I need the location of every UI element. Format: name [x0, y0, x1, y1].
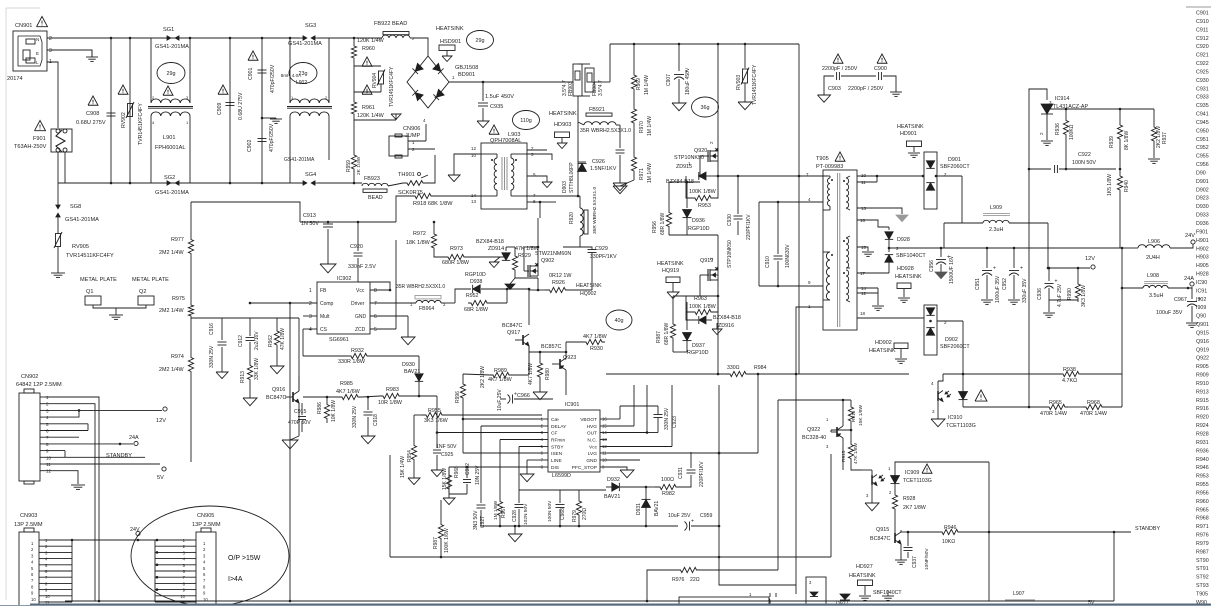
- svg-text:12: 12: [471, 146, 477, 151]
- svg-text:D932: D932: [607, 477, 620, 483]
- wire Vcc rail: [519, 489, 606, 491]
- right PFC rail down x799: [798, 44, 800, 374]
- svg-text:2.3uH: 2.3uH: [989, 227, 1003, 233]
- svg-text:BC328-40: BC328-40: [802, 435, 826, 441]
- svg-text:CF: CF: [551, 431, 557, 437]
- svg-text:100uF 35V: 100uF 35V: [1156, 310, 1183, 316]
- svg-text:TVR14511KFC4FY: TVR14511KFC4FY: [66, 253, 114, 259]
- svg-text:R932: R932: [351, 348, 364, 354]
- wire lower right web: [719, 557, 796, 585]
- svg-text:DELAY: DELAY: [551, 424, 567, 430]
- svg-text:R976: R976: [672, 577, 685, 583]
- svg-text:C909: C909: [217, 102, 223, 115]
- svg-text:35R WBRH2.5X3X1.0: 35R WBRH2.5X3X1.0: [580, 128, 631, 134]
- svg-text:1N 50V: 1N 50V: [301, 221, 319, 227]
- svg-text:L6599D: L6599D: [552, 473, 571, 479]
- svg-text:10KΩ: 10KΩ: [942, 539, 955, 545]
- svg-text:C912: C912: [1196, 36, 1209, 42]
- svg-text:R905: R905: [1196, 364, 1209, 370]
- gnd arrow under R971: [620, 180, 634, 186]
- svg-text:D902: D902: [945, 337, 958, 343]
- svg-text:2: 2: [49, 36, 52, 42]
- bridge rectifier BD901 GBJ1508: [407, 56, 449, 108]
- svg-text:C951: C951: [975, 278, 981, 290]
- svg-text:330Ω: 330Ω: [727, 365, 740, 371]
- svg-text:CS: CS: [320, 327, 328, 333]
- svg-text:Driver: Driver: [351, 301, 365, 307]
- resistor R937 2K2 1/8W: [1153, 109, 1155, 116]
- svg-text:C933: C933: [1196, 95, 1209, 101]
- svg-text:24A: 24A: [129, 435, 139, 441]
- bottom bus: [65, 600, 1114, 602]
- svg-text:Comp: Comp: [320, 301, 334, 307]
- svg-text:Q90: Q90: [1196, 314, 1206, 320]
- ground below RV905: [57, 247, 59, 273]
- svg-text:ST91: ST91: [1196, 566, 1209, 572]
- svg-text:18K 1/8W: 18K 1/8W: [406, 240, 431, 246]
- svg-text:1M 1/4W: 1M 1/4W: [644, 75, 650, 95]
- svg-text:1K5 1/8W: 1K5 1/8W: [1107, 174, 1113, 196]
- svg-text:24A: 24A: [1184, 276, 1194, 282]
- svg-text:18: 18: [860, 311, 866, 316]
- svg-text:3K3 1/8W: 3K3 1/8W: [1081, 285, 1087, 307]
- svg-text:R962: R962: [268, 335, 274, 347]
- svg-text:3K3 1/6W: 3K3 1/6W: [424, 418, 449, 424]
- svg-text:C968: C968: [560, 508, 566, 520]
- svg-text:180uF 450V: 180uF 450V: [685, 67, 691, 95]
- svg-text:HEATSINK: HEATSINK: [895, 274, 922, 280]
- svg-text:4.7KΩ: 4.7KΩ: [1062, 378, 1077, 384]
- svg-text:R960: R960: [1196, 499, 1209, 505]
- varistor RV904: [379, 71, 384, 84]
- svg-text:Q917: Q917: [507, 330, 520, 336]
- svg-text:METAL PLATE: METAL PLATE: [132, 277, 169, 283]
- capacitor C951 1000uF 35V: [986, 247, 989, 250]
- svg-text:C913: C913: [303, 213, 316, 219]
- wires L903 secondary right: [527, 154, 552, 160]
- svg-text:D936: D936: [692, 218, 705, 224]
- ground triangle under RV904: [391, 114, 401, 120]
- svg-text:H905: H905: [1196, 263, 1209, 269]
- svg-text:16: 16: [860, 218, 866, 223]
- svg-text:HEATSINK: HEATSINK: [869, 348, 896, 354]
- page border left faint: [5, 8, 7, 600]
- wire L903 pin7 to D903 junction: [527, 195, 580, 197]
- svg-text:Mult: Mult: [320, 314, 330, 320]
- svg-text:47K 1/8W: 47K 1/8W: [853, 442, 859, 464]
- svg-text:STTH8L06FP: STTH8L06FP: [569, 162, 575, 193]
- svg-text:C907: C907: [666, 74, 672, 86]
- svg-text:PFC_STOP: PFC_STOP: [572, 465, 597, 471]
- svg-text:R952: R952: [466, 293, 479, 299]
- svg-text:HD927: HD927: [856, 564, 873, 570]
- capacitor C907 180uF 450V: [678, 43, 681, 46]
- svg-text:IC914: IC914: [1055, 96, 1069, 102]
- bottom page line: [30, 603, 1211, 605]
- resistor R969 1M 1/4W: [633, 43, 636, 46]
- svg-text:3N3 50V: 3N3 50V: [473, 510, 479, 530]
- svg-text:C920: C920: [1196, 44, 1209, 50]
- svg-text:R970: R970: [639, 121, 645, 133]
- svg-text:C920: C920: [350, 244, 363, 250]
- svg-text:STANDBY: STANDBY: [1135, 526, 1160, 532]
- svg-text:220PF/1KV: 220PF/1KV: [746, 214, 752, 240]
- svg-text:BEAD: BEAD: [368, 195, 383, 201]
- svg-text:R928: R928: [1196, 432, 1209, 438]
- svg-text:C955: C955: [1196, 154, 1209, 160]
- svg-text:C908: C908: [86, 111, 99, 117]
- svg-text:2K7 1/8W: 2K7 1/8W: [903, 505, 926, 511]
- vertical x390: [389, 455, 391, 557]
- svg-text:HQ902: HQ902: [580, 291, 597, 297]
- svg-text:SBF2060CT: SBF2060CT: [940, 344, 970, 350]
- resistor R918 68K 1/8W: [396, 196, 403, 222]
- varistor RV905: [57, 220, 59, 233]
- wire Q902 drain from L903 pin8: [537, 218, 539, 247]
- svg-text:R971: R971: [1196, 524, 1209, 530]
- svg-text:15K 1/4W: 15K 1/4W: [400, 456, 406, 478]
- svg-text:BAV21: BAV21: [654, 501, 660, 516]
- svg-text:L906: L906: [1148, 239, 1160, 245]
- capacitor C903 2200pF/250V: [833, 54, 843, 63]
- svg-text:H902: H902: [1196, 246, 1209, 252]
- svg-text:100KΩ: 100KΩ: [1069, 124, 1075, 140]
- svg-text:SG3: SG3: [305, 23, 316, 29]
- svg-text:R987: R987: [656, 331, 662, 343]
- svg-text:10R 1/8W: 10R 1/8W: [378, 400, 403, 406]
- svg-text:0.68U 275V: 0.68U 275V: [238, 92, 244, 120]
- svg-text:D931: D931: [636, 503, 642, 515]
- svg-text:40g: 40g: [615, 318, 624, 324]
- svg-text:10NF/50V: 10NF/50V: [924, 548, 930, 570]
- svg-text:10N 25V: 10N 25V: [475, 465, 481, 485]
- wire fuse to lower bus: [57, 152, 59, 183]
- svg-text:470R 1/4W: 470R 1/4W: [1080, 411, 1108, 417]
- resistor R974 2M2 1/4W: [188, 352, 193, 377]
- svg-text:100Ω: 100Ω: [661, 477, 674, 483]
- svg-text:330N 25V: 330N 25V: [352, 405, 358, 428]
- svg-text:270Ω: 270Ω: [582, 508, 588, 520]
- wire Q917-Q923: [529, 351, 566, 353]
- svg-text:R990: R990: [1067, 288, 1073, 300]
- page border top right tick: [1186, 6, 1211, 8]
- svg-text:C903: C903: [828, 86, 841, 92]
- svg-text:3: 3: [309, 314, 312, 320]
- svg-text:D936: D936: [1196, 221, 1209, 227]
- svg-text:470pF/250V: 470pF/250V: [269, 123, 275, 152]
- terminal 24V: [1191, 240, 1195, 244]
- svg-text:GS41-201MA: GS41-201MA: [155, 190, 189, 196]
- svg-text:1000uF 35V: 1000uF 35V: [995, 275, 1001, 303]
- wire IC901 pin11 long: [718, 452, 721, 455]
- svg-text:35R WBRH2.5X3X1.0: 35R WBRH2.5X3X1.0: [396, 284, 445, 290]
- svg-text:BAV21: BAV21: [604, 494, 620, 500]
- svg-text:PT-009983: PT-009983: [816, 164, 843, 170]
- svg-text:R968: R968: [1087, 400, 1100, 406]
- wire bead to bridge: [410, 38, 428, 56]
- svg-text:C945: C945: [1196, 120, 1209, 126]
- svg-text:R953: R953: [698, 203, 711, 209]
- svg-text:FB: FB: [320, 288, 327, 294]
- T905 aux winding: [826, 252, 830, 300]
- svg-text:2: 2: [309, 301, 312, 307]
- svg-text:0R12 1W: 0R12 1W: [549, 273, 572, 279]
- wire CN901 pin1 down to fuse: [47, 62, 58, 128]
- resistor R984 330ohm: [726, 371, 750, 376]
- svg-text:13P 2.5MM: 13P 2.5MM: [192, 522, 221, 528]
- svg-text:RGP10D: RGP10D: [465, 272, 486, 278]
- wire CN901 pin3 to ground: [47, 50, 92, 57]
- resistor R970 1M 1/4W: [631, 106, 636, 126]
- svg-text:HEATSINK: HEATSINK: [897, 124, 924, 130]
- svg-text:R960: R960: [362, 46, 375, 52]
- svg-text:C922: C922: [1078, 152, 1091, 158]
- svg-text:FB964: FB964: [419, 306, 434, 312]
- svg-text:102N 50V: 102N 50V: [523, 503, 529, 525]
- svg-text:CN905: CN905: [197, 513, 214, 519]
- capacitor C908 0.68U 275V: [88, 96, 98, 105]
- svg-text:R986: R986: [317, 402, 323, 414]
- svg-text:Q923: Q923: [563, 355, 576, 361]
- svg-text:BD901: BD901: [458, 72, 475, 78]
- svg-text:T63AH-250V: T63AH-250V: [14, 144, 47, 150]
- svg-text:R968: R968: [454, 466, 460, 478]
- ground between C901 C902: [261, 74, 263, 118]
- svg-text:6: 6: [374, 314, 377, 320]
- opto IC910 LED: [959, 392, 968, 400]
- svg-text:BC847C: BC847C: [502, 323, 522, 329]
- svg-text:Q919: Q919: [1196, 347, 1209, 353]
- svg-text:12: 12: [861, 291, 867, 296]
- zener ZD916 BZX84-B18: [699, 316, 706, 324]
- svg-text:C956: C956: [1196, 162, 1209, 168]
- svg-text:8: 8: [374, 288, 377, 294]
- wire drain rail to transformer: [718, 175, 828, 177]
- svg-text:R979: R979: [572, 510, 578, 522]
- svg-text:1.5uF 450V: 1.5uF 450V: [485, 94, 514, 100]
- svg-text:D903: D903: [562, 181, 568, 193]
- svg-text:13: 13: [471, 199, 477, 204]
- gnd below bus: [514, 525, 517, 528]
- svg-text:R965: R965: [1049, 400, 1062, 406]
- svg-text:C912: C912: [238, 335, 244, 347]
- svg-text:RFmin: RFmin: [551, 438, 565, 444]
- svg-text:5: 5: [374, 327, 377, 333]
- wires FB box rail: [572, 81, 573, 83]
- svg-text:L908: L908: [1147, 273, 1159, 279]
- svg-text:10: 10: [31, 597, 36, 602]
- svg-text:2M2 1/4W: 2M2 1/4W: [159, 250, 184, 256]
- svg-text:D930: D930: [1196, 204, 1209, 210]
- svg-text:2U4H: 2U4H: [1146, 255, 1160, 261]
- resistor R975 2M2 1/4W: [188, 303, 193, 318]
- svg-text:STW21NM60N: STW21NM60N: [535, 251, 571, 257]
- svg-text:ISEN: ISEN: [551, 451, 563, 457]
- svg-text:GS41-201MA: GS41-201MA: [65, 217, 99, 223]
- svg-text:47K 1/8W: 47K 1/8W: [280, 328, 286, 350]
- svg-text:LVG: LVG: [588, 451, 598, 457]
- svg-text:C941: C941: [1196, 112, 1209, 118]
- svg-text:R965: R965: [1196, 507, 1209, 513]
- svg-text:R936: R936: [1196, 448, 1209, 454]
- svg-text:ZCD: ZCD: [355, 327, 366, 333]
- svg-text:C950: C950: [1196, 128, 1209, 134]
- svg-text:C959: C959: [700, 513, 713, 519]
- svg-text:Q901: Q901: [1196, 322, 1209, 328]
- svg-text:L901: L901: [163, 135, 175, 141]
- svg-text:FPH6001AL: FPH6001AL: [155, 145, 185, 151]
- svg-text:330N 25V: 330N 25V: [664, 407, 670, 430]
- svg-text:330PF/1KV: 330PF/1KV: [590, 254, 617, 260]
- resistor R915 47K 1/8W: [850, 429, 853, 432]
- svg-text:D90: D90: [1196, 170, 1206, 176]
- svg-text:330R 1/8W: 330R 1/8W: [338, 359, 366, 365]
- svg-text:IC90: IC90: [1196, 280, 1207, 286]
- resistor R977 2M2 1/4W: [190, 202, 192, 233]
- capacitor C926 1.5NF/1KV: [619, 125, 621, 148]
- svg-text:R987: R987: [1196, 549, 1209, 555]
- PFC choke L903 QPH7008AL: [489, 125, 499, 134]
- ground metal plates: [109, 314, 123, 316]
- svg-text:8mH 4.0A: 8mH 4.0A: [281, 73, 302, 78]
- terminal 24A: [1188, 287, 1192, 288]
- svg-text:2M2 1/4W: 2M2 1/4W: [159, 308, 184, 314]
- svg-text:Q915: Q915: [1196, 330, 1209, 336]
- svg-text:100N 50V: 100N 50V: [547, 500, 553, 522]
- svg-text:R937: R937: [1162, 132, 1168, 144]
- top PFC rail y44: [610, 43, 799, 45]
- svg-text:R972: R972: [413, 231, 426, 237]
- svg-text:TVR1451KFC4FY: TVR1451KFC4FY: [752, 64, 758, 105]
- svg-text:R916: R916: [1196, 406, 1209, 412]
- svg-text:C910: C910: [1196, 19, 1209, 25]
- wire vertical rail x230 C909: [229, 38, 231, 183]
- wire TL431 ref: [1047, 108, 1154, 110]
- svg-text:100N630V: 100N630V: [785, 244, 791, 268]
- svg-text:I909: I909: [1196, 305, 1206, 311]
- varistor RV903: [744, 43, 747, 46]
- svg-text:100N 50V: 100N 50V: [1072, 160, 1096, 166]
- diode D902 SBF2060CT: [924, 305, 937, 355]
- vertical x989: [988, 462, 990, 601]
- svg-text:D937: D937: [692, 343, 705, 349]
- svg-text:24V: 24V: [1185, 233, 1195, 239]
- vertical x290 wire: [289, 303, 291, 601]
- svg-text:F901: F901: [1196, 229, 1208, 235]
- svg-text:R924: R924: [1196, 423, 1209, 429]
- svg-text:Vcc: Vcc: [356, 288, 365, 294]
- bus y557: [390, 556, 831, 558]
- svg-text:470P 50V: 470P 50V: [288, 420, 311, 426]
- vertical x1029: [1028, 169, 1030, 407]
- svg-text:D928: D928: [897, 237, 910, 243]
- svg-text:IC909: IC909: [905, 470, 919, 476]
- fuse FB904 3.5*4.7: [585, 68, 594, 92]
- svg-text:HD928: HD928: [897, 266, 914, 272]
- primary ground bus y374: [606, 373, 726, 375]
- svg-text:+: +: [434, 95, 437, 101]
- svg-text:TH901: TH901: [398, 172, 415, 178]
- capacitor C929 330PF/1KV: [563, 246, 580, 248]
- svg-text:R913: R913: [240, 371, 246, 383]
- svg-text:HVG: HVG: [587, 424, 598, 430]
- svg-text:1M 1/4W: 1M 1/4W: [647, 116, 653, 136]
- svg-text:RV902: RV902: [121, 112, 127, 128]
- svg-text:C952: C952: [1002, 278, 1008, 290]
- svg-text:13P 2.5MM: 13P 2.5MM: [14, 522, 43, 528]
- svg-text:D901: D901: [1196, 179, 1209, 185]
- svg-text:SBF2060CT: SBF2060CT: [940, 164, 970, 170]
- resistor R963 100K 1/8W: [717, 280, 719, 296]
- svg-text:H928: H928: [1196, 272, 1209, 278]
- svg-text:120K 1/4W: 120K 1/4W: [357, 113, 385, 119]
- capacitor C900 2200pF/250V: [877, 54, 887, 63]
- svg-text:10: 10: [861, 173, 867, 178]
- svg-text:3: 3: [49, 48, 52, 54]
- oval 110g: [513, 111, 540, 130]
- gnd arrow Q902 source: [505, 284, 515, 290]
- svg-text:ZD916: ZD916: [718, 323, 734, 329]
- svg-text:Q916: Q916: [272, 387, 285, 393]
- svg-text:STANDBY: STANDBY: [106, 453, 132, 459]
- svg-text:R984: R984: [754, 365, 767, 371]
- svg-text:R915: R915: [841, 450, 847, 462]
- svg-text:BC847C: BC847C: [266, 395, 286, 401]
- resistor R939 8K 1/8W: [1117, 112, 1122, 152]
- IC902 SG6961 box: [317, 282, 370, 334]
- svg-text:TVR1451KFC4FY: TVR1451KFC4FY: [389, 66, 395, 107]
- varistor RV902: [118, 85, 128, 94]
- svg-text:64842 12P 2.5MM: 64842 12P 2.5MM: [16, 382, 62, 388]
- diode D936 RGP10D: [686, 182, 688, 208]
- svg-text:3.5uH: 3.5uH: [1149, 293, 1163, 299]
- wire L903 pin10 to gnd triangle: [454, 154, 481, 175]
- svg-text:8K 1/8W: 8K 1/8W: [1124, 131, 1130, 150]
- svg-text:R983: R983: [386, 387, 399, 393]
- svg-text:68R 1/8W: 68R 1/8W: [464, 307, 489, 313]
- svg-text:17: 17: [860, 271, 866, 276]
- svg-text:R954: R954: [407, 450, 413, 462]
- svg-text:CN903: CN903: [20, 513, 37, 519]
- svg-text:I902: I902: [1196, 297, 1206, 303]
- svg-text:CN902: CN902: [21, 374, 38, 380]
- svg-text:10: 10: [46, 455, 52, 460]
- svg-text:BZX84-B18: BZX84-B18: [713, 315, 741, 321]
- capacitor C910 100N630V: [777, 202, 779, 254]
- svg-text:SG4: SG4: [305, 172, 316, 178]
- svg-text:R980: R980: [545, 368, 551, 380]
- svg-text:L907: L907: [1013, 591, 1025, 597]
- svg-text:100K 1/8W: 100K 1/8W: [689, 189, 717, 195]
- svg-text:HEATSINK: HEATSINK: [436, 26, 464, 32]
- svg-text:IC910: IC910: [948, 415, 962, 421]
- svg-text:HEATSINK: HEATSINK: [849, 573, 876, 579]
- svg-text:330N 25V: 330N 25V: [209, 345, 215, 368]
- svg-text:13: 13: [861, 206, 867, 211]
- capacitor C936 4.7uF 25V: [1048, 267, 1051, 270]
- svg-text:H903: H903: [1196, 255, 1209, 261]
- svg-text:METAL PLATE: METAL PLATE: [80, 277, 117, 283]
- svg-text:4: 4: [309, 327, 312, 333]
- IC901 left wires ladder: [463, 418, 542, 420]
- svg-text:R913: R913: [1196, 389, 1209, 395]
- wire CN901 pin2 to top bus: [47, 37, 111, 39]
- svg-text:Q922: Q922: [1196, 356, 1209, 362]
- svg-text:T905: T905: [816, 156, 829, 162]
- ellipse output note: [131, 506, 289, 606]
- svg-text:R976: R976: [1196, 533, 1209, 539]
- svg-text:11: 11: [861, 180, 866, 185]
